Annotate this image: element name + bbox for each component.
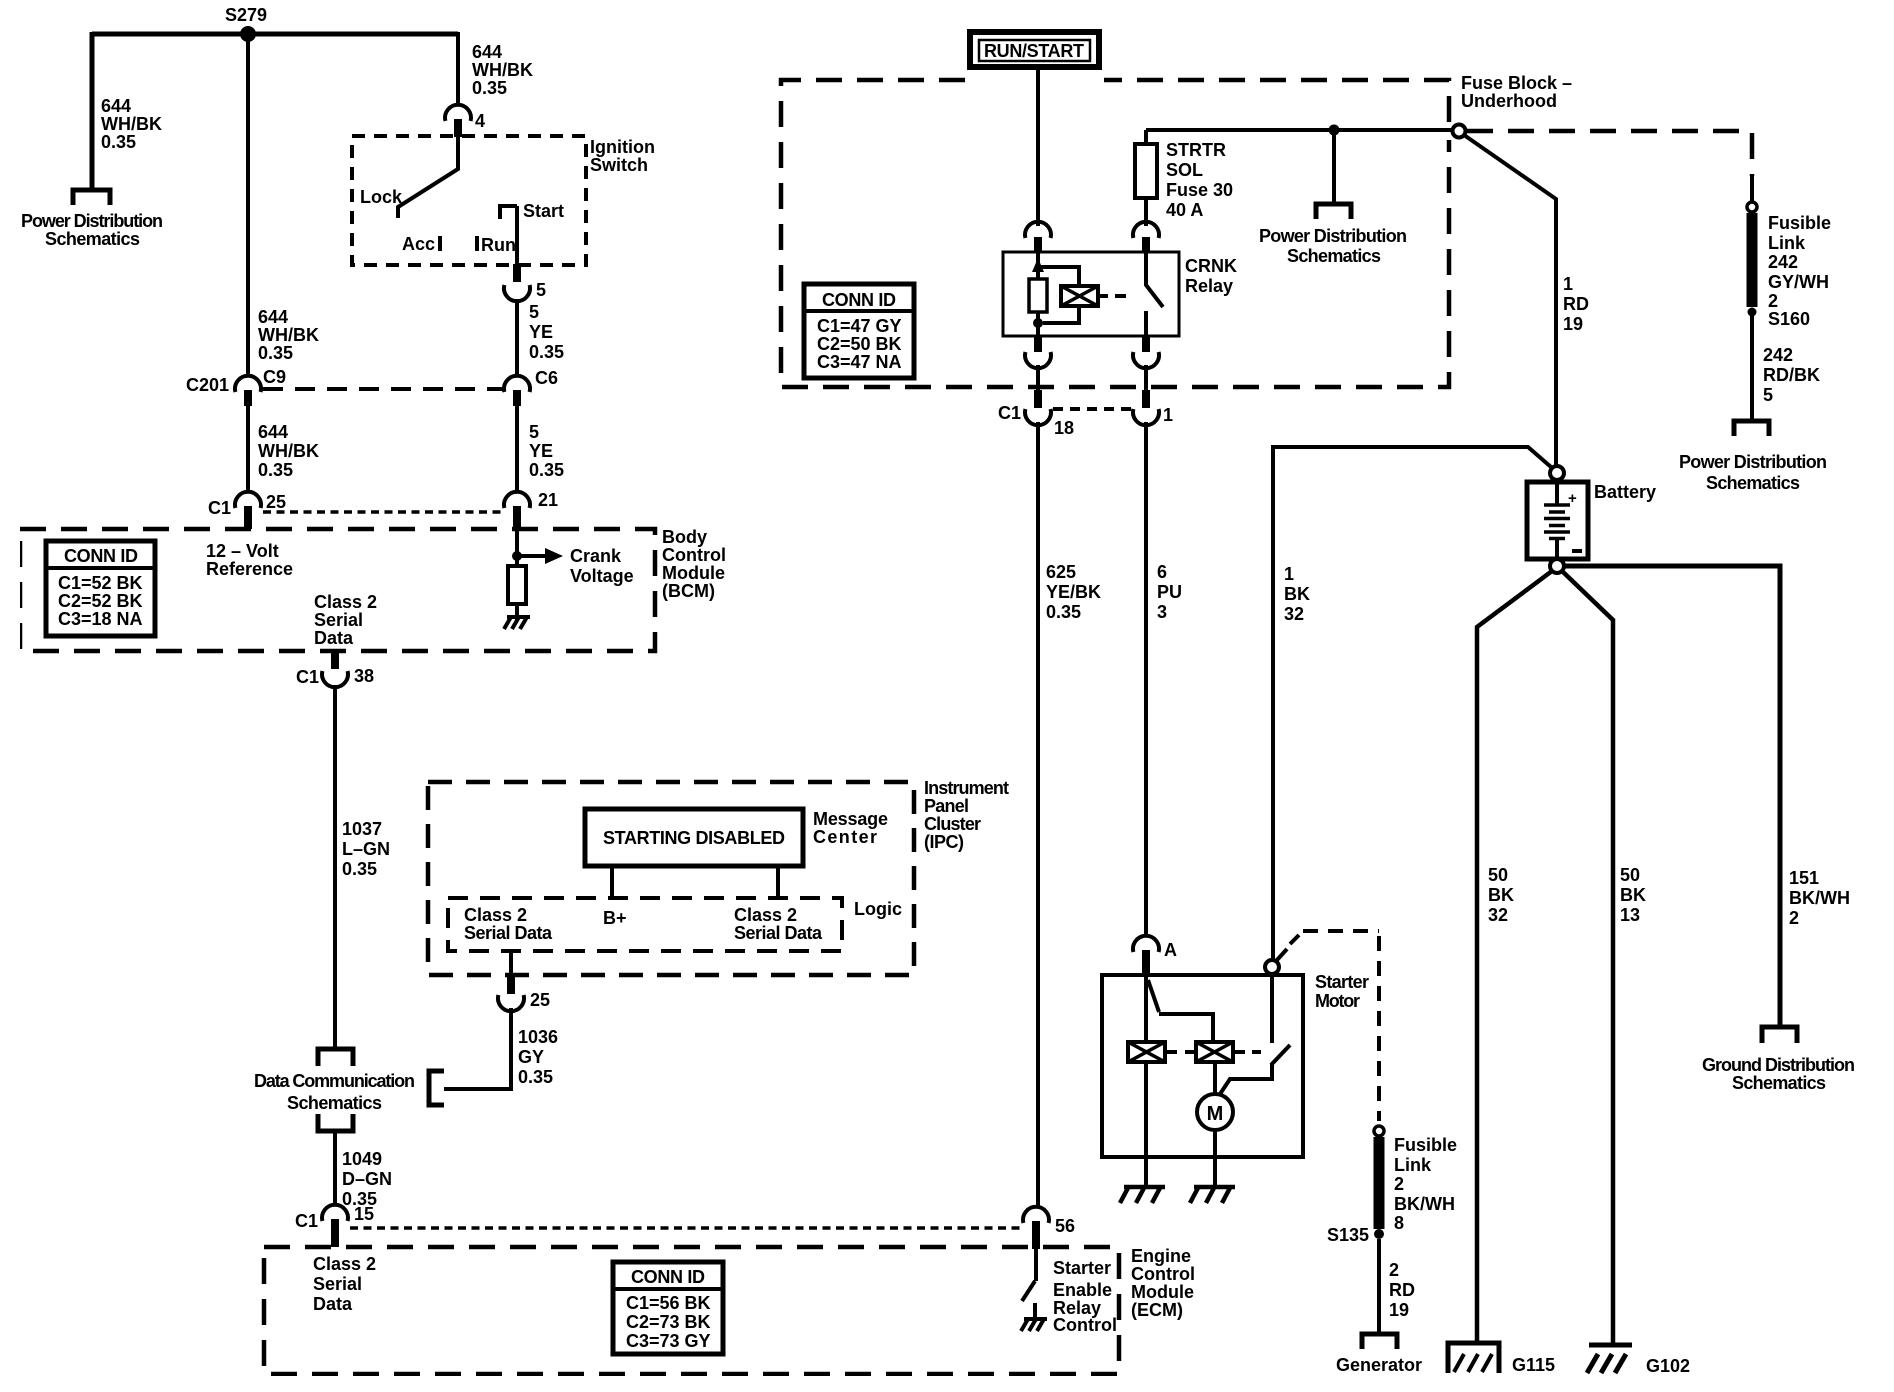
svg-text:Center: Center <box>813 827 877 847</box>
svg-text:C3=47 NA: C3=47 NA <box>817 352 902 372</box>
svg-text:Class 2: Class 2 <box>314 592 377 612</box>
svg-text:19: 19 <box>1389 1300 1409 1320</box>
starter contact switch blade <box>1271 1045 1290 1065</box>
svg-text:Serial Data: Serial Data <box>734 923 823 943</box>
svg-text:1049: 1049 <box>342 1149 382 1169</box>
connector pin 4 half-shell <box>445 105 471 121</box>
connector C1 pin 15 stub <box>331 1219 339 1247</box>
svg-text:RD/BK: RD/BK <box>1763 365 1820 385</box>
wire: dashed connector line C9 to C6 <box>263 387 504 391</box>
logic dashed box <box>448 898 842 951</box>
svg-text:Control: Control <box>1131 1264 1195 1284</box>
connector pin 4 stub <box>454 119 462 137</box>
svg-text:1: 1 <box>1284 564 1294 584</box>
ignition switch wiper wire <box>398 136 458 218</box>
svg-text:18: 18 <box>1054 418 1074 438</box>
wire: display to logic (left) <box>610 866 614 898</box>
ground (starter motor) <box>1190 1186 1235 1203</box>
connector C6 pin stub <box>513 390 521 406</box>
svg-text:Schematics: Schematics <box>1706 473 1800 493</box>
svg-text:2: 2 <box>1768 291 1778 311</box>
RUN/START banner box <box>970 32 1099 67</box>
wire: 2 RD 19 to generator <box>1377 1239 1381 1333</box>
svg-text:644: 644 <box>101 96 131 116</box>
svg-text:WH/BK: WH/BK <box>258 325 319 345</box>
off-page bracket (Power Distribution right) <box>1734 421 1769 436</box>
relay coil-side input connector half-shell <box>1025 222 1051 238</box>
svg-text:Schematics: Schematics <box>287 1093 382 1113</box>
svg-text:Voltage: Voltage <box>570 566 634 586</box>
svg-text:0.35: 0.35 <box>1046 602 1081 622</box>
svg-text:Start: Start <box>523 201 564 221</box>
svg-text:Module: Module <box>662 563 725 583</box>
svg-text:Engine: Engine <box>1131 1246 1191 1266</box>
wire: C6 to pin 21 (5 YE) <box>515 406 519 493</box>
svg-text:BK/WH: BK/WH <box>1394 1194 1455 1214</box>
connector pin 21 stub <box>513 506 521 529</box>
svg-text:Message: Message <box>813 809 888 829</box>
fuse STRTR SOL Fuse 30 40A <box>1135 144 1157 198</box>
svg-text:(BCM): (BCM) <box>662 581 715 601</box>
svg-text:S135: S135 <box>1327 1225 1369 1245</box>
svg-text:Ignition: Ignition <box>590 137 655 157</box>
Run contact tick <box>475 236 479 251</box>
wire: resistor to relay bottom <box>1036 312 1040 336</box>
wire: fuse feed bus <box>1146 128 1453 132</box>
relay switch blade <box>1146 252 1163 336</box>
svg-text:Power Distribution: Power Distribution <box>1679 452 1827 472</box>
wire: negative bus right (151 BK/WH) <box>1563 566 1780 1026</box>
wire: dashed connector line 18 to 1 <box>1053 407 1131 411</box>
svg-text:C6: C6 <box>535 368 558 388</box>
wire: dotted connector line 15 to 56 <box>350 1226 1022 1230</box>
CONN ID table (ECM) <box>613 1262 723 1354</box>
wire: bus drop to fuse <box>1144 130 1148 144</box>
svg-text:Fusible: Fusible <box>1394 1135 1457 1155</box>
svg-text:Schematics: Schematics <box>1732 1073 1826 1093</box>
svg-text:19: 19 <box>1563 314 1583 334</box>
wire: 50 BK 13 to G102 <box>1562 571 1613 1344</box>
svg-text:Serial: Serial <box>313 1274 362 1294</box>
svg-text:242: 242 <box>1763 345 1793 365</box>
dashed actuator link between windings <box>1167 1050 1194 1054</box>
wire: power distribution drop <box>1332 130 1336 203</box>
svg-text:Generator: Generator <box>1336 1355 1422 1375</box>
connector C6 half-shell <box>504 376 530 392</box>
relay coil branch wire with arrow <box>1038 252 1079 286</box>
ground G115 <box>1448 1343 1499 1373</box>
ECM dashed box <box>264 1247 1119 1374</box>
svg-text:C9: C9 <box>263 367 286 387</box>
connector C9 half-shell <box>235 376 261 392</box>
relay coil junction dot <box>1033 318 1043 328</box>
svg-text:644: 644 <box>472 42 502 62</box>
svg-text:21: 21 <box>538 490 558 510</box>
connector pin 21 half-shell <box>504 492 530 508</box>
off-page connector bracket (Power Distribution) <box>73 190 110 205</box>
wire: 242 RD/BK 5 <box>1750 316 1754 420</box>
battery negative terminal circle <box>1550 559 1564 573</box>
svg-text:(IPC): (IPC) <box>924 832 964 852</box>
wire: relay outputs to C1/1 connectors <box>1038 365 1146 392</box>
svg-text:Serial Data: Serial Data <box>464 923 553 943</box>
wire: RUN/START feed down to relay <box>1036 67 1040 226</box>
svg-text:Instrument: Instrument <box>924 778 1009 798</box>
wire: pin 56 into ECM <box>1034 1248 1038 1281</box>
svg-text:Schematics: Schematics <box>1287 246 1381 266</box>
svg-text:40 A: 40 A <box>1166 200 1203 220</box>
wire: 1049 D-GN class 2 serial data <box>333 1131 337 1206</box>
svg-text:Battery: Battery <box>1594 482 1656 502</box>
IPC dashed box <box>428 782 914 975</box>
starter B+ terminal circle <box>1265 960 1279 974</box>
svg-text:Body: Body <box>662 527 707 547</box>
connector C1 pin stub <box>244 506 252 529</box>
svg-text:2: 2 <box>1394 1174 1404 1194</box>
wire: 6 PU from relay to starter pin A <box>1144 422 1148 936</box>
wire: Start contact down to pin 5 <box>515 206 519 267</box>
wire: B terminal down to contact <box>1270 974 1274 1043</box>
connector pin 56 half-shell <box>1023 1207 1049 1223</box>
svg-text:Link: Link <box>1394 1155 1432 1175</box>
svg-text:C1: C1 <box>998 403 1021 423</box>
svg-text:CONN ID: CONN ID <box>631 1267 705 1287</box>
svg-text:Fuse Block –: Fuse Block – <box>1461 73 1572 93</box>
svg-text:WH/BK: WH/BK <box>258 441 319 461</box>
svg-text:Cluster: Cluster <box>924 814 981 834</box>
fusible link 2 BK/WH element <box>1374 1137 1385 1229</box>
wire: 625 YE/BK from relay to ECM pin 56 <box>1036 422 1040 1207</box>
wire: 50 BK 32 to G115 <box>1477 571 1552 1341</box>
svg-text:Link: Link <box>1768 233 1806 253</box>
svg-text:Control: Control <box>1053 1315 1117 1335</box>
svg-text:Fusible: Fusible <box>1768 213 1831 233</box>
splice S135 dot <box>1374 1229 1384 1239</box>
wire: left drop 644 WH/BK to Power Distribution <box>90 32 95 188</box>
svg-text:PU: PU <box>1157 582 1182 602</box>
svg-text:Class 2: Class 2 <box>734 905 797 925</box>
off-page bracket (Data Communication right) <box>429 1071 444 1105</box>
ground G102 <box>1587 1345 1632 1373</box>
svg-text:Lock: Lock <box>360 187 403 207</box>
svg-text:Motor: Motor <box>1315 991 1360 1011</box>
wire: dotted connector line 25 to 21 <box>263 510 504 514</box>
ground (BCM internal) <box>504 617 530 629</box>
dashed boundary to fusible link 2 <box>1290 935 1299 944</box>
svg-text:38: 38 <box>354 666 374 686</box>
wire: pin 21 to crank voltage node <box>515 529 519 568</box>
relay switch output stub + cup <box>1142 336 1150 352</box>
svg-text:Class 2: Class 2 <box>464 905 527 925</box>
svg-text:Data: Data <box>313 1294 353 1314</box>
svg-text:C1: C1 <box>296 667 319 687</box>
svg-text:2: 2 <box>1389 1260 1399 1280</box>
message center display box STARTING DISABLED <box>585 809 803 866</box>
svg-text:L–GN: L–GN <box>342 839 390 859</box>
svg-text:0.35: 0.35 <box>529 460 564 480</box>
relay coil X-box <box>1061 286 1098 306</box>
svg-text:1: 1 <box>1163 405 1173 425</box>
svg-text:Data: Data <box>314 628 354 648</box>
ignition switch dashed box <box>352 136 586 265</box>
svg-text:CONN ID: CONN ID <box>822 290 896 310</box>
svg-text:BK: BK <box>1284 584 1310 604</box>
svg-text:151: 151 <box>1789 868 1819 888</box>
Start contact <box>500 206 517 219</box>
connector C9 pin stub <box>244 390 252 406</box>
svg-text:15: 15 <box>354 1204 374 1224</box>
off-page bracket (Power Distribution mid) <box>1316 204 1351 219</box>
svg-text:0.35: 0.35 <box>258 343 293 363</box>
terminal tick <box>1277 949 1287 960</box>
dashed actuator link <box>1098 294 1126 298</box>
svg-text:1: 1 <box>1563 274 1573 294</box>
svg-text:Power Distribution: Power Distribution <box>1259 226 1407 246</box>
svg-text:Fuse 30: Fuse 30 <box>1166 180 1233 200</box>
wire: 1037 L-GN class 2 serial data <box>333 685 337 1048</box>
dashed actuator link to contact switch <box>1235 1050 1261 1054</box>
svg-text:Schematics: Schematics <box>45 229 140 249</box>
svg-text:50: 50 <box>1620 865 1640 885</box>
svg-text:2: 2 <box>1789 908 1799 928</box>
connector pin A stub <box>1142 950 1150 975</box>
connector pin 5 stub <box>513 264 521 282</box>
svg-text:13: 13 <box>1620 905 1640 925</box>
svg-text:STARTING DISABLED: STARTING DISABLED <box>603 828 785 848</box>
svg-text:0.35: 0.35 <box>342 859 377 879</box>
svg-text:GY/WH: GY/WH <box>1768 272 1829 292</box>
svg-text:S160: S160 <box>1768 309 1810 329</box>
starter solenoid feed wire (pin A to hold-in winding) <box>1144 975 1148 1042</box>
svg-text:BK/WH: BK/WH <box>1789 888 1850 908</box>
connector C1 pin 18 stub + cup <box>1034 390 1042 408</box>
svg-text:56: 56 <box>1055 1216 1075 1236</box>
solenoid switch blade and link to pull-in winding <box>1148 980 1213 1042</box>
svg-text:Panel: Panel <box>924 796 969 816</box>
svg-text:Starter: Starter <box>1315 972 1369 992</box>
wire: contact to motor <box>1220 1063 1272 1094</box>
svg-text:8: 8 <box>1394 1213 1404 1233</box>
connector C1 (BCM pin 25) half-shell <box>235 492 261 508</box>
svg-text:(ECM): (ECM) <box>1131 1300 1183 1320</box>
connector pin 1 stub + cup <box>1142 390 1150 408</box>
wire: fuse to relay connector <box>1144 198 1148 226</box>
wire: to fusible link top <box>1750 176 1754 202</box>
wire: resistor to ground <box>515 604 519 621</box>
relay coil output stub + cup <box>1034 336 1042 352</box>
svg-text:BK: BK <box>1620 885 1646 905</box>
wire: S279 horizontal bus <box>92 32 458 37</box>
svg-text:YE/BK: YE/BK <box>1046 582 1101 602</box>
svg-text:1036: 1036 <box>518 1027 558 1047</box>
svg-text:Run: Run <box>481 235 516 255</box>
connector C1 pin 38 half-shell cup <box>322 671 348 687</box>
starter motor M circle <box>1197 1094 1233 1130</box>
svg-text:Power Distribution: Power Distribution <box>21 211 163 231</box>
fuse block output terminal circle <box>1453 125 1466 138</box>
pull-in winding X-box <box>1196 1042 1233 1062</box>
fusible link 242 GY/WH element <box>1747 213 1758 307</box>
svg-text:625: 625 <box>1046 562 1076 582</box>
svg-text:B+: B+ <box>603 908 627 928</box>
splice S160 dot <box>1748 308 1757 317</box>
svg-text:YE: YE <box>529 441 553 461</box>
fusible link 2 top terminal circle <box>1374 1126 1384 1136</box>
svg-text:Reference: Reference <box>206 559 293 579</box>
connector C1 pin 15 half-shell <box>322 1205 348 1221</box>
battery positive terminal circle <box>1550 466 1564 480</box>
svg-text:Logic: Logic <box>854 899 902 919</box>
svg-text:SOL: SOL <box>1166 160 1203 180</box>
connector pin 25 stub (IPC) <box>507 974 515 994</box>
svg-text:32: 32 <box>1488 905 1508 925</box>
relay coil resistor <box>1029 279 1047 312</box>
svg-text:5: 5 <box>536 280 546 300</box>
svg-text:G102: G102 <box>1646 1356 1690 1376</box>
svg-text:CRNK: CRNK <box>1185 256 1237 276</box>
svg-text:WH/BK: WH/BK <box>101 114 162 134</box>
svg-text:Enable: Enable <box>1053 1280 1112 1300</box>
svg-text:4: 4 <box>475 111 485 131</box>
connector pin 5 half-shell cup <box>504 285 530 301</box>
battery minus sign <box>1572 549 1582 553</box>
svg-text:C201: C201 <box>186 375 229 395</box>
svg-text:STRTR: STRTR <box>1166 140 1226 160</box>
splice S279 junction dot <box>240 26 256 42</box>
svg-text:5: 5 <box>529 302 539 322</box>
svg-text:0.35: 0.35 <box>258 460 293 480</box>
svg-text:Serial: Serial <box>314 610 363 630</box>
svg-text:G115: G115 <box>1512 1355 1555 1375</box>
svg-text:25: 25 <box>530 990 550 1010</box>
svg-text:50: 50 <box>1488 865 1508 885</box>
wire: 1 BK 32 from battery to starter solenoid <box>1273 447 1551 960</box>
svg-text:Module: Module <box>1131 1282 1194 1302</box>
battery internal plates <box>1555 484 1559 559</box>
svg-text:C3=73 GY: C3=73 GY <box>626 1331 711 1351</box>
CRNK relay box <box>1003 252 1179 336</box>
svg-text:Relay: Relay <box>1185 276 1233 296</box>
switch lower contact stub <box>1033 1303 1037 1319</box>
svg-text:0.35: 0.35 <box>472 78 507 98</box>
starter enable relay switch blade <box>1022 1281 1035 1301</box>
node: crank voltage junction dot <box>512 551 522 561</box>
wire: diagonal feed to battery (1 RD 19) <box>1464 135 1556 467</box>
wire: X-box return to junction <box>1043 306 1079 323</box>
svg-text:BK: BK <box>1488 885 1514 905</box>
fusible link 242 top terminal circle <box>1747 202 1757 212</box>
CONN ID table (fuse block) <box>804 284 914 378</box>
svg-text:WH/BK: WH/BK <box>472 60 533 80</box>
wire: display to logic (right) <box>776 866 780 898</box>
svg-text:12 – Volt: 12 – Volt <box>206 541 279 561</box>
splice junction dot on fuse bus <box>1329 125 1340 136</box>
CONN ID table (BCM) <box>46 541 155 636</box>
svg-text:GY: GY <box>518 1047 544 1067</box>
BCM dashed box <box>20 529 655 651</box>
off-page bracket (Ground Distribution) <box>1762 1027 1797 1043</box>
off-page bracket (Generator) <box>1362 1334 1397 1349</box>
wire: motor to ground <box>1213 1130 1217 1186</box>
crank voltage arrow <box>517 554 545 558</box>
svg-text:32: 32 <box>1284 604 1304 624</box>
svg-text:CONN ID: CONN ID <box>64 546 138 566</box>
svg-text:Ground Distribution: Ground Distribution <box>1702 1055 1855 1075</box>
svg-text:D–GN: D–GN <box>342 1169 392 1189</box>
svg-text:1037: 1037 <box>342 819 382 839</box>
relay switch-side input connector half-shell <box>1133 222 1159 238</box>
svg-text:Switch: Switch <box>590 155 648 175</box>
wire: pull-in winding to motor <box>1213 1062 1217 1094</box>
svg-text:Control: Control <box>662 545 726 565</box>
svg-text:Starter: Starter <box>1053 1258 1111 1278</box>
svg-text:0.35: 0.35 <box>518 1067 553 1087</box>
connector pin 56 stub <box>1032 1221 1040 1249</box>
svg-text:C2=52 BK: C2=52 BK <box>58 591 143 611</box>
svg-text:Data Communication: Data Communication <box>254 1071 415 1091</box>
connector pin A half-shell <box>1133 936 1159 952</box>
resistor (BCM pull-down) <box>508 566 526 604</box>
ground (ECM internal) <box>1021 1319 1047 1331</box>
svg-text:RD: RD <box>1563 294 1589 314</box>
off-page bracket lower (Data Communication) <box>318 1114 353 1131</box>
starter motor solid box <box>1102 975 1303 1157</box>
svg-text:A: A <box>1164 940 1177 960</box>
svg-text:0.35: 0.35 <box>101 132 136 152</box>
wire: IPC class 2 serial data down to pin 25 <box>509 951 513 978</box>
connector pin 25 half-shell cup (IPC) <box>498 995 524 1011</box>
svg-text:C2=50 BK: C2=50 BK <box>817 334 902 354</box>
svg-text:644: 644 <box>258 307 288 327</box>
svg-text:0.35: 0.35 <box>529 342 564 362</box>
battery box <box>1527 482 1588 559</box>
svg-text:3: 3 <box>1157 602 1167 622</box>
fuse block underhood dashed box <box>781 80 1449 387</box>
wire: S279 down to C201 <box>246 34 250 376</box>
svg-text:6: 6 <box>1157 562 1167 582</box>
svg-text:644: 644 <box>258 422 288 442</box>
svg-text:M: M <box>1207 1103 1224 1125</box>
svg-text:Underhood: Underhood <box>1461 91 1557 111</box>
svg-text:5: 5 <box>1763 385 1773 405</box>
wire: S279 to ignition switch pin 4 <box>456 32 460 104</box>
svg-text:C1: C1 <box>208 498 231 518</box>
svg-text:RD: RD <box>1389 1280 1415 1300</box>
Acc contact tick <box>438 236 442 251</box>
svg-text:C2=73 BK: C2=73 BK <box>626 1312 711 1332</box>
svg-text:Class 2: Class 2 <box>313 1254 376 1274</box>
ground (starter hold-in) <box>1120 1186 1165 1203</box>
wire: hold-in winding to ground <box>1144 1062 1148 1186</box>
svg-text:YE: YE <box>529 322 553 342</box>
wire: pin 5 to C6 (5 YE) <box>515 299 519 376</box>
svg-text:C1=56 BK: C1=56 BK <box>626 1293 711 1313</box>
wire: dashed to fusible link 242 <box>1467 131 1752 176</box>
svg-text:242: 242 <box>1768 252 1798 272</box>
wire: C201 to C1 (644 WH/BK) <box>246 406 250 493</box>
svg-text:S279: S279 <box>225 5 267 25</box>
svg-text:C3=18 NA: C3=18 NA <box>58 609 143 629</box>
svg-text:RUN/START: RUN/START <box>984 41 1084 61</box>
svg-text:C1=52 BK: C1=52 BK <box>58 573 143 593</box>
svg-text:Crank: Crank <box>570 546 622 566</box>
svg-text:25: 25 <box>266 492 286 512</box>
off-page bracket upper (Data Communication) <box>318 1049 353 1066</box>
connector C1 pin 38 stub <box>331 653 339 669</box>
svg-text:C1=47 GY: C1=47 GY <box>817 316 902 336</box>
svg-text:C1: C1 <box>295 1211 318 1231</box>
wire: 1036 GY to data communication bracket <box>444 1008 511 1089</box>
